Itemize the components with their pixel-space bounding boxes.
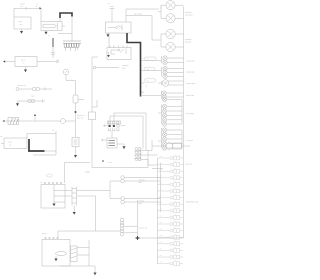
terminal strip left rails (158, 158, 161, 264)
lamp bulb 11 (162, 91, 166, 95)
svg-text:30 5: 30 5 (160, 262, 163, 264)
connector hatch (71, 246, 78, 262)
gauge instrument (63, 69, 69, 75)
svg-text:F8: F8 (174, 201, 176, 203)
parking lights row 2 (141, 70, 161, 72)
svg-text:F7: F7 (174, 194, 176, 196)
ground (107, 33, 109, 34)
svg-text:F9: F9 (174, 207, 176, 209)
svg-text:30 5: 30 5 (160, 222, 163, 224)
wire (124, 200, 138, 238)
terminal row 11 (158, 221, 184, 226)
ground (52, 204, 55, 207)
lamp bulb 17 (162, 118, 166, 122)
screened lead thick (28, 139, 30, 151)
fuse box row (63, 41, 81, 51)
fuse on wire (89, 112, 96, 120)
connector strip (72, 187, 77, 206)
svg-text:10: 10 (174, 214, 176, 216)
junction (75, 111, 77, 113)
terminal row 13 (158, 234, 184, 239)
wire branch (92, 100, 97, 107)
lamp bulb 22 (162, 141, 166, 145)
terminal row 3 (158, 168, 184, 173)
svg-text:30 5: 30 5 (160, 255, 163, 257)
terminal strip rows (158, 155, 184, 266)
relay A box (106, 22, 132, 33)
terminal row 7 (158, 194, 184, 199)
blower motor M2 (166, 143, 181, 150)
wire (14, 7, 33, 17)
wire (161, 34, 166, 47)
wire (34, 116, 36, 121)
lamp bulb 12 (162, 95, 166, 99)
ticks (141, 83, 144, 92)
svg-text:F6: F6 (174, 188, 176, 190)
wire connector ticks (51, 47, 55, 58)
svg-text:15: 15 (174, 247, 176, 249)
terminal row 15 (158, 247, 184, 252)
inline component 2 (72, 138, 79, 147)
resistor feed wire (4, 120, 76, 122)
terminal row 4 (158, 174, 184, 179)
thick feed to lighting bus (127, 33, 141, 97)
parking lights row 1 (141, 60, 161, 62)
wire screen box (27, 134, 56, 156)
light switch assembly (46, 174, 52, 177)
wire (158, 5, 166, 18)
svg-text:F4: F4 (174, 174, 176, 176)
ground (108, 52, 110, 55)
svg-text:30 5: 30 5 (160, 189, 163, 191)
svg-text:30 5: 30 5 (160, 235, 163, 237)
wire (73, 206, 75, 213)
svg-text:30 5: 30 5 (160, 242, 163, 244)
tick (78, 99, 84, 101)
wire (162, 91, 184, 99)
link to relay B (108, 33, 110, 48)
svg-text:Interface unit: Interface unit (186, 201, 198, 204)
svg-text:30 5: 30 5 (160, 215, 163, 217)
terminal row 10 (158, 214, 184, 219)
svg-text:16: 16 (174, 254, 176, 256)
wire (175, 5, 183, 18)
lamp bulb 18 (162, 122, 166, 126)
ignition switch (15, 57, 37, 67)
fusible link (52, 38, 54, 47)
lamp bulb 20 (162, 132, 166, 136)
connector pair B (120, 224, 124, 228)
wire left arrow (5, 61, 15, 63)
lamp bulb 2 (166, 14, 175, 23)
lamp bulb 5 (163, 56, 167, 60)
lamp bulb 3 (166, 29, 175, 38)
terminal row 1 (158, 155, 184, 160)
long wire (92, 57, 98, 112)
svg-text:12: 12 (174, 227, 176, 229)
lamp bulb 8 (163, 70, 167, 74)
wire to terminal (111, 9, 113, 22)
wire (162, 67, 184, 76)
lamp bulb 4 (166, 42, 175, 51)
terminal row 17 (158, 260, 184, 265)
svg-text:ae: ae (1, 136, 3, 138)
svg-text:F1: F1 (174, 155, 176, 157)
connector pair A (120, 218, 124, 222)
big junction box outline (85, 120, 148, 173)
svg-text:30 5: 30 5 (160, 176, 163, 178)
terminal row 9 (158, 207, 184, 212)
ground (73, 212, 76, 215)
right bus (183, 7, 185, 239)
svg-text:13: 13 (174, 234, 176, 236)
connector pair C (120, 229, 124, 233)
lamp bulb 14 (162, 104, 166, 108)
heater resistor (107, 138, 117, 148)
svg-text:58K: 58K (147, 81, 150, 83)
svg-text:30 5: 30 5 (160, 182, 163, 184)
svg-text:58L: 58L (147, 59, 150, 61)
wire (53, 202, 55, 204)
ground (93, 273, 96, 276)
connector pair E (121, 197, 125, 201)
lamp bulb 23 (162, 146, 166, 150)
svg-text:30 5: 30 5 (160, 156, 163, 158)
lamp bulb 6 (163, 60, 167, 64)
terminal row 5 (158, 181, 184, 186)
wire (124, 178, 160, 182)
svg-text:30 5: 30 5 (160, 209, 163, 211)
thick battery cable (60, 13, 72, 18)
lamp bulb 1 (166, 1, 175, 10)
spur with connector (93, 66, 96, 69)
svg-text:30 5: 30 5 (160, 248, 163, 250)
wiper motor M1 (14, 17, 31, 29)
svg-text:30 5: 30 5 (160, 202, 163, 204)
svg-text:14: 14 (174, 240, 176, 242)
wire (162, 56, 184, 63)
ground (54, 259, 57, 262)
svg-text:30 5: 30 5 (160, 169, 163, 171)
lamp bulb 16 (162, 113, 166, 117)
lamp bulb 9 (163, 74, 167, 78)
terminal row 14 (158, 240, 184, 245)
terminal row 2 (158, 161, 184, 166)
lamp bulb 19 (162, 128, 166, 132)
svg-text:30 5: 30 5 (160, 229, 163, 231)
svg-text:F5: F5 (174, 181, 176, 183)
inline component (73, 95, 78, 103)
starter solenoid (41, 22, 62, 31)
ground (45, 31, 47, 32)
wire (60, 240, 95, 273)
terminal row 12 (158, 227, 184, 232)
wire right (37, 61, 56, 63)
terminal connector (110, 7, 115, 9)
wire (175, 34, 183, 47)
wire (55, 256, 57, 259)
wire (58, 230, 120, 232)
tick (55, 131, 57, 134)
svg-text:30 5: 30 5 (160, 163, 163, 165)
svg-text:17: 17 (174, 260, 176, 262)
wire (75, 103, 77, 138)
svg-text:11: 11 (174, 221, 176, 223)
wire (158, 81, 184, 85)
svg-text:F2: F2 (174, 161, 176, 163)
lamp bulb 7 (163, 66, 167, 70)
svg-text:F3: F3 (174, 168, 176, 170)
junction dot (34, 114, 36, 116)
number plate lamp (144, 79, 156, 82)
relay B box (107, 45, 131, 59)
multi connector block (108, 121, 121, 131)
wire (40, 8, 42, 21)
terminal row 6 (158, 188, 184, 193)
radio (1, 136, 28, 149)
wire (141, 95, 162, 97)
lamp bulb 25 (134, 147, 141, 160)
wire (124, 199, 160, 203)
lamp bulb 21 (162, 137, 166, 141)
lamp bulb 15 (162, 109, 166, 113)
lamp bulb 13 (162, 97, 166, 101)
terminal row 16 (158, 254, 184, 259)
lamp bulb 10 (162, 80, 169, 87)
ground (25, 67, 27, 70)
ground (21, 29, 23, 31)
dark junction (136, 236, 140, 240)
wires to connectors (77, 181, 121, 231)
connector pair D (121, 176, 125, 180)
wire to big box (65, 163, 91, 184)
wires right from relay A (126, 7, 161, 23)
wire (140, 237, 184, 239)
svg-text:30 5: 30 5 (160, 196, 163, 198)
terminal row 8 (158, 201, 184, 206)
svg-text:58R: 58R (147, 69, 150, 71)
wire with arrow (33, 7, 39, 9)
wire (66, 75, 76, 95)
wire (58, 17, 72, 42)
tick (57, 59, 59, 61)
wire (141, 140, 190, 151)
